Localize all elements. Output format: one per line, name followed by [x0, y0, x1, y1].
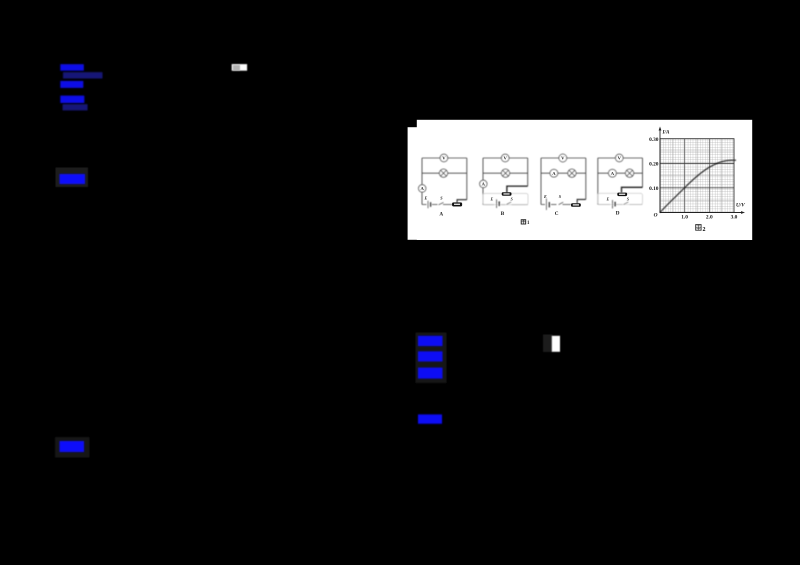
wire: C middle	[541, 172, 586, 174]
voltmeter V (A)	[440, 154, 448, 162]
hyperlink block 7 halo	[55, 437, 90, 457]
voltmeter V (B)	[501, 154, 509, 162]
svg-text:0.30: 0.30	[649, 137, 659, 143]
ammeter A (C)	[550, 169, 558, 177]
svg-text:E: E	[424, 196, 428, 201]
wire: C right vertical	[585, 158, 587, 199]
lamp (B)	[501, 169, 509, 177]
hyperlink block 5 (dark)	[63, 104, 88, 110]
voltmeter V (C)	[559, 154, 567, 162]
enclosure box (D)	[598, 193, 643, 204]
wire: D middle	[598, 172, 643, 174]
x axis U/V	[660, 212, 743, 214]
battery E (B)	[496, 199, 498, 208]
hyperlink block 2 (dark)	[63, 72, 103, 78]
hyperlink block 11	[418, 414, 442, 423]
svg-text:E: E	[490, 196, 494, 201]
graph frame	[660, 139, 734, 213]
switch S (B)	[507, 202, 512, 204]
wire: A top	[422, 157, 467, 159]
wire: D top	[598, 157, 643, 159]
wire: D bottom	[598, 204, 643, 206]
figure 2 white canvas	[417, 120, 752, 240]
switch S (A)	[439, 202, 444, 204]
ammeter A (A)	[419, 185, 426, 192]
rheostat lead (D)	[622, 187, 643, 192]
svg-text:B: B	[501, 211, 505, 217]
small white inline image 2	[552, 336, 560, 352]
svg-text:3.0: 3.0	[731, 214, 738, 220]
wire: C bottom	[541, 204, 571, 206]
rheostat (B)	[502, 192, 512, 195]
caption 图1	[521, 220, 530, 226]
small dark inline image 2 blob	[543, 335, 553, 353]
svg-text:C: C	[555, 211, 559, 217]
lamp (A)	[439, 169, 447, 177]
wire: A middle	[422, 172, 467, 174]
wire: C top	[541, 157, 586, 159]
figure 1 white canvas	[408, 127, 650, 240]
svg-text:1.0: 1.0	[681, 214, 688, 220]
hyperlink block 6 halo	[56, 168, 89, 188]
wire: B top	[483, 157, 528, 159]
small white inline image 1	[232, 64, 247, 71]
hyperlink block 4	[60, 96, 84, 103]
voltmeter V (D)	[616, 154, 624, 162]
battery E (D)	[612, 200, 614, 209]
hyperlink block 6	[60, 174, 86, 184]
lamp (C)	[568, 169, 576, 177]
wire: B bottom	[483, 204, 528, 206]
gray part of inline image 1	[233, 65, 240, 71]
wire: D left vertical	[597, 158, 599, 205]
ammeter A (D)	[609, 169, 617, 177]
svg-text:E: E	[606, 197, 610, 202]
switch S (D)	[624, 202, 629, 205]
wire: D right vertical	[642, 158, 644, 187]
svg-text:2: 2	[703, 227, 706, 233]
graph fine grid	[660, 139, 734, 213]
graph major gridlines	[685, 139, 710, 213]
svg-text:0.20: 0.20	[649, 162, 659, 168]
graph mid gridlines	[660, 139, 734, 213]
rheostat (C)	[571, 203, 581, 207]
battery E (C)	[545, 199, 547, 211]
hyperlink block 1	[60, 64, 84, 71]
hyperlink block 7	[60, 441, 85, 452]
y axis I/A	[659, 129, 661, 213]
hyperlink block 10	[418, 368, 443, 379]
rheostat (D)	[617, 193, 627, 197]
lamp (D)	[626, 169, 634, 177]
rheostat lead (A)	[457, 200, 467, 203]
enclosure box (B)	[483, 193, 528, 204]
svg-text:0.10: 0.10	[649, 186, 659, 192]
hyperlink block 3	[60, 81, 83, 88]
wire: A bottom	[422, 204, 453, 206]
wire: B middle	[483, 172, 528, 174]
caption 图2	[696, 225, 706, 233]
ammeter A (B)	[480, 180, 487, 187]
svg-text:O: O	[654, 213, 658, 219]
I-U curve	[660, 160, 736, 212]
svg-text:I/A: I/A	[662, 130, 670, 136]
hyperlink block 9	[418, 351, 443, 361]
svg-text:E: E	[543, 194, 547, 199]
wire: A left vertical	[421, 158, 423, 205]
rheostat (A)	[452, 203, 462, 207]
svg-text:U/V: U/V	[736, 203, 745, 209]
svg-text:2.0: 2.0	[706, 214, 713, 220]
hyperlink halo right column	[416, 333, 447, 384]
rheostat lead (B)	[507, 186, 528, 192]
svg-text:D: D	[616, 211, 620, 217]
wire: B left vertical	[482, 158, 484, 205]
wire: A right vertical	[466, 158, 468, 200]
wire: C left vertical	[540, 158, 542, 205]
switch S (C)	[559, 202, 564, 205]
rheostat lead (C)	[577, 199, 586, 203]
svg-text:A: A	[439, 212, 443, 218]
wire: B right vertical	[527, 158, 529, 186]
battery E (A)	[427, 201, 429, 208]
hyperlink block 8	[418, 336, 443, 346]
